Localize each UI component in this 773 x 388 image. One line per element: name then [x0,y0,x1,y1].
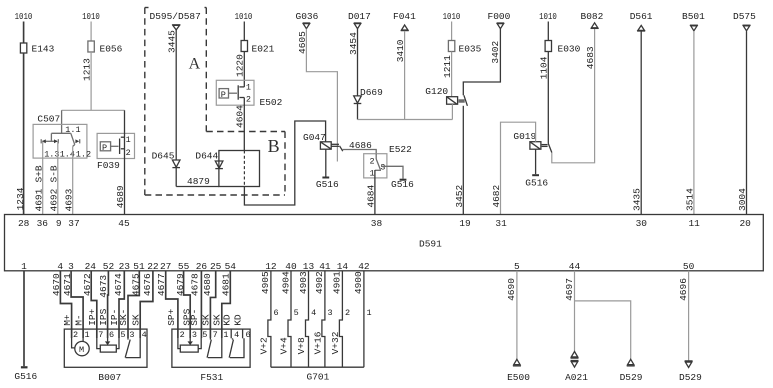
svg-text:F041: F041 [393,11,416,22]
svg-text:KD: KD [232,314,243,326]
svg-text:1: 1 [21,261,27,272]
svg-text:3410: 3410 [395,39,406,62]
svg-text:4604: 4604 [235,105,246,128]
svg-text:D561: D561 [630,11,653,22]
svg-text:4673: 4673 [98,275,109,298]
svg-text:2: 2 [126,148,131,158]
svg-text:M-: M- [73,314,84,325]
svg-text:4679: 4679 [175,273,186,296]
svg-text:1010: 1010 [539,11,557,22]
svg-text:SK: SK [130,314,141,326]
wire 3445 [167,30,178,160]
wire 4683 to B082 [552,29,596,163]
svg-text:4: 4 [57,261,63,272]
ground G516 (E522) [391,179,414,190]
arrow F041 [401,25,409,31]
svg-text:SP-: SP- [189,309,200,326]
svg-text:3454: 3454 [348,32,359,55]
svg-text:3: 3 [129,330,134,340]
svg-text:D645: D645 [152,150,175,161]
wire feed1 upper [23,22,25,44]
wire G019 coil top to pin 31 (4682) [491,122,536,214]
wire 4689 through F039 to pin 45 [115,110,126,214]
svg-text:4900: 4900 [353,271,364,294]
svg-text:E502: E502 [260,97,283,108]
svg-text:M: M [79,345,84,355]
wire 1213 [81,52,92,110]
svg-text:A: A [189,56,201,73]
svg-text:2: 2 [370,156,375,166]
svg-text:F000: F000 [488,11,511,22]
wire 4684 [365,170,376,215]
svg-text:E143: E143 [32,44,55,55]
wire junction to C507/F039 [62,109,125,111]
wire feed4 upper [451,22,453,41]
svg-text:12: 12 [265,261,277,272]
svg-text:1010: 1010 [82,11,100,22]
arrow B501 [690,25,698,31]
svg-text:5: 5 [120,330,125,340]
svg-text:E056: E056 [100,44,123,55]
svg-text:27: 27 [160,261,171,272]
svg-text:37: 37 [68,218,79,229]
wire 4693 [63,146,74,214]
svg-text:1: 1 [223,330,228,340]
svg-text:25: 25 [210,261,222,272]
svg-text:1234: 1234 [15,187,26,210]
svg-text:42: 42 [358,261,370,272]
svg-text:V+2: V+2 [259,337,270,354]
svg-text:40: 40 [285,261,297,272]
svg-text:4670: 4670 [51,273,62,296]
svg-text:B082: B082 [581,11,604,22]
svg-text:30: 30 [636,218,648,229]
svg-text:G019: G019 [513,131,536,142]
ground G516 (G047) [316,177,339,190]
potentiometer in F531 [178,338,201,352]
switch F039 [97,133,135,170]
svg-text:P: P [221,90,226,100]
svg-text:22: 22 [147,261,159,272]
wire G120 coil bottom to junction [451,104,453,119]
svg-text:3: 3 [328,308,333,318]
svg-text:SP+: SP+ [166,308,177,325]
wire 4605 [297,29,337,162]
wire 4671 (M-) [62,271,85,338]
wire 4902 (V+16) [313,271,326,367]
svg-text:1010: 1010 [443,11,461,22]
svg-text:S+B: S+B [33,165,44,182]
svg-text:1010: 1010 [15,11,33,22]
svg-text:G516: G516 [14,371,37,382]
sensor B007 [64,329,147,383]
svg-text:1220: 1220 [235,54,246,77]
ground G516 (G019) [525,174,548,188]
svg-text:45: 45 [118,218,130,229]
svg-text:D017: D017 [348,11,371,22]
svg-text:4696: 4696 [678,278,689,301]
svg-text:V+32: V+32 [330,331,341,354]
wire 1211 [442,52,453,97]
svg-text:4689: 4689 [115,185,126,208]
svg-text:G120: G120 [425,86,448,97]
svg-text:M+: M+ [62,314,73,326]
wire pin1 to ground [23,271,25,366]
svg-text:4690: 4690 [506,278,517,301]
svg-text:4903: 4903 [298,271,309,294]
svg-text:4676: 4676 [142,273,153,296]
arrow E500 [507,359,530,383]
svg-text:6: 6 [246,330,251,340]
wire 4678 (SP-) [189,271,202,338]
wire 4686 [342,140,376,154]
svg-text:54: 54 [225,261,237,272]
svg-text:24: 24 [85,261,97,272]
svg-text:D529: D529 [679,372,702,383]
svg-text:G516: G516 [391,179,414,190]
svg-text:6: 6 [274,308,279,318]
svg-text:4672: 4672 [82,273,93,296]
svg-text:9: 9 [56,218,62,229]
wire 4677 (SP+) [156,271,178,338]
svg-text:4879: 4879 [187,176,210,187]
svg-text:1.2: 1.2 [76,149,91,159]
svg-text:E030: E030 [558,44,581,55]
svg-text:1: 1 [126,135,131,145]
dashed box D595/D587 (A) [145,8,285,196]
svg-text:D529: D529 [620,372,643,383]
wire G047 coil to ground [325,149,327,176]
motor M in B007 [72,338,90,356]
arrow F000 [497,23,505,29]
svg-text:14: 14 [337,261,349,272]
svg-text:B501: B501 [682,11,705,22]
wire 4905 (V+2) [259,271,272,367]
svg-text:4692: 4692 [49,188,60,211]
dashed box B [206,132,285,196]
svg-text:36: 36 [37,218,49,229]
wire 4680 (SK) [201,271,216,338]
svg-text:1: 1 [370,168,375,178]
svg-text:3452: 3452 [454,184,465,207]
fuse E143 [20,43,54,55]
svg-text:7: 7 [98,330,103,340]
svg-text:4697: 4697 [564,278,575,301]
svg-text:4901: 4901 [332,271,343,294]
svg-text:4691: 4691 [33,188,44,211]
wire 3410 [395,31,406,120]
wire G019 coil to ground [535,149,537,174]
wire 3452 [454,106,465,215]
svg-text:1: 1 [85,330,90,340]
svg-text:4: 4 [234,330,239,340]
svg-text:26: 26 [196,261,208,272]
svg-text:7: 7 [213,330,218,340]
svg-text:S-B: S-B [49,165,60,182]
svg-text:G516: G516 [316,179,339,190]
switch SK in B007 [125,338,140,358]
relay G019 [513,131,551,153]
wire E522 pin3 to ground [381,166,403,178]
potentiometer in B007 [97,338,119,352]
svg-text:5: 5 [202,330,207,340]
svg-text:3435: 3435 [632,188,643,211]
switch KD in F531 [229,338,244,357]
svg-text:B007: B007 [98,372,121,383]
wire 3004 [737,31,748,214]
relay G047 [303,132,343,151]
sensor F531 [172,329,251,383]
wire 1104 [539,52,550,144]
svg-text:E500: E500 [507,372,530,383]
svg-text:50: 50 [683,261,695,272]
svg-text:B: B [268,136,280,156]
svg-text:V+16: V+16 [313,331,324,354]
svg-text:4674: 4674 [113,273,124,296]
switch SK in F531 [207,338,222,358]
switch E522 [364,144,412,178]
svg-text:D669: D669 [360,87,383,98]
svg-text:3: 3 [68,261,74,272]
svg-text:3445: 3445 [167,30,178,53]
svg-text:55: 55 [178,261,190,272]
wire 4676 (SK) [130,271,153,338]
wire 4670 (M+) [51,271,73,338]
svg-text:SK-: SK- [118,309,129,326]
wire feed5 upper [547,22,549,41]
svg-text:4: 4 [311,308,316,318]
arrow G036 [303,23,311,29]
svg-text:2: 2 [345,308,350,318]
wire 4901 (V+32) [330,271,343,367]
wire 3435 [632,31,643,214]
fuse E021 [241,41,275,55]
svg-text:F531: F531 [200,372,223,383]
svg-text:4681: 4681 [220,273,231,296]
wire 1220 [235,52,246,87]
svg-text:5: 5 [514,261,520,272]
arrow B082 [591,23,599,29]
svg-text:11: 11 [688,218,700,229]
svg-text:31: 31 [495,218,507,229]
wire 1234 [15,53,26,215]
svg-text:20: 20 [739,218,751,229]
wire 3514 [684,31,695,214]
svg-text:4: 4 [142,330,147,340]
svg-text:13: 13 [303,261,315,272]
svg-text:E035: E035 [459,44,482,55]
svg-text:28: 28 [18,218,30,229]
arrow D529 (branch) [620,359,643,383]
svg-text:1104: 1104 [539,56,550,79]
svg-text:2: 2 [180,330,185,340]
svg-text:G516: G516 [525,178,548,189]
svg-text:52: 52 [103,261,115,272]
arrow D529 (right) [679,361,702,383]
arrow D561 [637,25,645,31]
svg-text:4678: 4678 [190,273,201,296]
fuse E030 [545,41,581,55]
svg-text:3402: 3402 [490,40,501,63]
svg-text:4905: 4905 [260,271,271,294]
wire 4681 (SK) [212,271,232,338]
switch E502 [216,80,282,108]
wire 3402 [463,29,501,96]
wire 4672 (IP+) [82,271,98,338]
svg-text:D575: D575 [733,11,756,22]
wire 4673 (IPS) [98,271,109,338]
wire 4697 branch to D529 [575,301,631,359]
svg-text:SK: SK [201,314,212,326]
fuse E056 [88,41,123,55]
wire 4691 (S+B) [33,141,44,214]
wire 4879 [176,168,219,187]
wire 4604 dashed inside module [243,151,245,187]
fuse E035 [448,41,481,55]
svg-text:19: 19 [459,218,471,229]
svg-text:E522: E522 [389,144,412,155]
wire 4696 [678,271,689,361]
svg-text:P: P [102,143,107,153]
svg-text:38: 38 [371,218,383,229]
diode D644 [195,150,223,168]
svg-text:3: 3 [192,330,197,340]
counter G701 bottom bus [271,367,364,382]
svg-text:4671: 4671 [62,273,73,296]
wire 3454 [348,29,359,96]
svg-text:1211: 1211 [442,55,453,78]
svg-text:4902: 4902 [314,271,325,294]
wire module output to G047 coil [244,121,325,205]
wire 4697 [564,271,575,352]
wire 4674 (IP-) [109,271,124,338]
svg-text:2: 2 [73,330,78,340]
svg-text:2: 2 [246,95,251,105]
wire 4903 (V+8) [296,271,309,367]
svg-text:4683: 4683 [585,46,596,69]
svg-text:D644: D644 [195,150,218,161]
diode D645 [152,150,180,167]
svg-text:KD: KD [222,314,233,326]
svg-text:V+8: V+8 [296,337,307,354]
svg-text:4680: 4680 [202,273,213,296]
svg-text:D591: D591 [419,239,442,250]
svg-text:44: 44 [569,261,581,272]
relay C507 [33,114,91,160]
svg-text:1213: 1213 [81,58,92,81]
svg-text:G701: G701 [307,371,330,382]
svg-text:E021: E021 [252,44,275,55]
svg-text:C507: C507 [37,114,60,125]
svg-text:D595/D587: D595/D587 [150,11,201,22]
wire feed3 upper [243,22,245,41]
junction wire (3454/3410/G120 coil) [358,119,453,121]
svg-text:4682: 4682 [491,184,502,207]
relay G120 [425,86,467,106]
svg-text:4605: 4605 [297,31,308,54]
svg-text:4684: 4684 [365,184,376,207]
svg-text:41: 41 [319,261,331,272]
wire D669 to junction [357,104,359,120]
svg-text:G036: G036 [296,11,319,22]
svg-text:4686: 4686 [349,140,372,151]
svg-text:3514: 3514 [684,188,695,211]
wire 4692 (S-B) [49,141,60,214]
svg-text:F039: F039 [97,160,120,171]
wire 4690 [506,271,517,360]
arrow D575 [743,25,751,31]
svg-text:4693: 4693 [63,188,74,211]
arrow into D645 (from D595/D587) [172,25,180,30]
svg-text:4904: 4904 [280,271,291,294]
svg-text:23: 23 [119,261,131,272]
wire 4679 (SPS) [175,271,193,338]
svg-text:4675: 4675 [131,273,142,296]
svg-text:IP+: IP+ [87,308,98,325]
wire 4604 [235,98,246,151]
arrow D017 [354,23,362,29]
svg-text:5: 5 [294,308,299,318]
wire feed2 upper [90,22,92,42]
svg-text:1: 1 [367,308,372,318]
diode D669 [354,87,383,104]
svg-text:51: 51 [133,261,145,272]
svg-text:A021: A021 [565,372,588,383]
svg-text:1: 1 [246,83,251,93]
wire drop to C507 pin 1.1 [61,110,63,133]
svg-text:IPS: IPS [98,308,109,325]
wire 4675 (SK-) [118,271,141,338]
svg-text:1010: 1010 [235,11,253,22]
wire 4900 [353,271,364,367]
ECU box D591 [5,215,764,271]
module box in B [219,151,260,187]
svg-text:4677: 4677 [156,273,167,296]
svg-text:3004: 3004 [737,188,748,211]
svg-text:V+4: V+4 [279,337,290,354]
wire 4904 (V+4) [279,271,292,367]
ground G516 (pin1) [14,366,37,382]
svg-text:6: 6 [109,330,114,340]
arrow A021 (bidirectional) [565,352,588,383]
